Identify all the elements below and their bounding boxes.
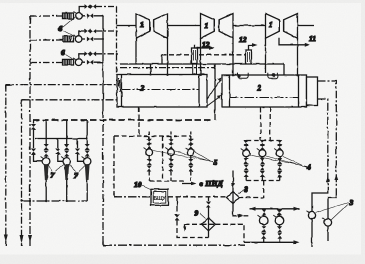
feed pump 3 branch (86, 120, 88, 144)
heat exchanger diamond 9 (202, 218, 216, 231)
wire unit2 top line (96, 30, 117, 32)
wire pump2 tail (66, 180, 68, 201)
wire bottom line y208.8 (250, 208, 300, 210)
turbine T2 (201, 14, 234, 39)
ROU-12 device b (246, 50, 252, 64)
wire T3 right leg (297, 38, 299, 75)
wire 12a arrow line (195, 45, 212, 48)
wire drum feed y99.8 (22, 99, 118, 101)
wire T2 left leg (200, 38, 202, 74)
wire bypass header x116.5 (116, 7, 118, 76)
arrow 11 (304, 43, 310, 47)
diagonal transfer arrow upper (207, 80, 220, 100)
wire inlet ROU unit3 (30, 62, 62, 64)
wire unit2 riser (79, 31, 85, 36)
dashed control enclosure (114, 136, 191, 196)
pump 7-3 (84, 158, 91, 165)
pump condensate b (279, 208, 281, 211)
label 10 leader (142, 186, 151, 190)
wire unit1 riser (79, 7, 85, 13)
wire turbine inlet (117, 25, 137, 27)
heavy dashed header y120 (33, 119, 213, 121)
valve unit2 top b (90, 29, 96, 34)
feed pump 2 branch (66, 120, 68, 144)
left drum fitting pair from ROU-12a (193, 64, 197, 75)
label 9 leader (200, 214, 206, 219)
wire unit1 out (82, 15, 103, 17)
wire bypass stub (161, 55, 163, 64)
valve unit1 top a (85, 4, 91, 9)
label 6 upper (63, 17, 75, 37)
turbine T1 (136, 14, 168, 39)
feed pump 1 side branch (34, 120, 43, 161)
wire steam line after T3 (298, 25, 315, 27)
valve unit3 top a (85, 51, 91, 56)
wire unit1 top line (96, 6, 117, 8)
turbine T3 (266, 14, 298, 39)
wire bypass dashed y54.8 (162, 54, 246, 56)
valve unit3 top b (90, 51, 96, 56)
wire bottom collect y242.3 (244, 241, 296, 243)
arrow up inner riser (326, 177, 330, 183)
wire diamond8 vertical (232, 170, 234, 192)
wire jog to pump3a (312, 190, 328, 212)
group5 riser stubs (149, 132, 191, 137)
wire drum feed y84.6 (6, 84, 117, 86)
arrow 12a (209, 46, 215, 50)
arrow 12b (252, 43, 258, 47)
wire pump3a down (311, 219, 313, 247)
wire vPND arrow (182, 183, 193, 185)
wire pump3b down (327, 226, 329, 241)
wire feed vertical left 3 (29, 16, 31, 246)
wire unit2 out (82, 38, 103, 40)
pump 7-1 cone (44, 164, 49, 180)
label 3 leaders (316, 203, 349, 221)
wire group5 collect (149, 180, 184, 182)
feed pump 2 side branch (58, 139, 63, 162)
wire control drop x177 (176, 197, 178, 212)
valve unit2 out (87, 37, 93, 42)
wire collector vertical x103 (102, 16, 104, 110)
boiler drum right (2) (222, 75, 307, 107)
wire pump1 tail (45, 180, 47, 201)
heat exchanger diamond 8 (227, 192, 240, 204)
pump condensate a (263, 208, 265, 211)
arrow into diamond8 (231, 183, 235, 189)
wire extraction 11 (279, 38, 306, 45)
pump 7-3 cone (85, 164, 90, 180)
group4 risers from drum (261, 107, 271, 141)
arrow right on y208.8 (294, 207, 300, 211)
enclosure internal dashed vertical (162, 136, 164, 181)
group5 pump 1 (148, 136, 150, 139)
wire diamond8 bottom (233, 204, 237, 216)
wire group4 discharge (240, 181, 264, 198)
wire right riser inner (318, 99, 328, 190)
wire jog to pump3b (328, 190, 336, 219)
pump 3b (324, 219, 331, 226)
arrow down 3 (28, 235, 32, 243)
wire main header y63.5 (120, 63, 284, 65)
arrow down 2 (20, 235, 24, 243)
valve unit2 top a (85, 29, 91, 34)
wire to BSchU (114, 196, 151, 198)
group4 pump 3 (279, 140, 281, 142)
label 8 leader (239, 190, 245, 194)
wire discharge header y201 (22, 200, 88, 202)
fitting circle left drum (193, 73, 197, 77)
feed pump 3 side branch (78, 139, 84, 162)
wire steam line T2-T3 (233, 25, 266, 27)
wire solid header y138.5 (35, 138, 88, 140)
group5 pump 2 (170, 136, 172, 139)
wire diamond9 right dashed (215, 224, 244, 242)
arrow left on y208.8 (250, 207, 256, 211)
corner joints (6, 16, 118, 245)
wire T1 left leg (135, 38, 137, 64)
arrow right y242.3 (294, 240, 300, 244)
group4 pump 1 (245, 140, 247, 142)
wire bottom long dash-dot (103, 244, 245, 246)
wire after arrow (244, 215, 249, 217)
feed pump 1 branch (45, 120, 47, 144)
wire aux header y66.8 (120, 67, 215, 69)
wire BSchU to diamond8 (168, 196, 227, 198)
valve unit3 out (87, 60, 93, 65)
boiler drum left (2) (117, 75, 207, 108)
diagonal transfer arrow lower (207, 97, 220, 107)
valve unit1 out (87, 13, 93, 18)
pump 7-1 (43, 158, 50, 165)
wire unit3 out (82, 61, 103, 63)
ROU unit 2 (63, 35, 82, 43)
wire inlet ROU unit2 (30, 39, 62, 41)
wire feed vertical left 2 (21, 100, 23, 246)
arrow down 1 (4, 235, 8, 243)
arrow down left of diamond9 (184, 224, 186, 227)
wire pump3 tail (86, 180, 88, 201)
BSchU control box (151, 189, 168, 205)
ROU unit 3 (63, 58, 82, 66)
arrow up outer riser (334, 175, 338, 181)
group5 pump 3 (190, 136, 192, 139)
drum right extension box (307, 77, 318, 106)
wire feed vertical left 1 (5, 85, 7, 246)
wire header drop into right drum (284, 64, 286, 88)
wire unit3 top line (96, 53, 117, 55)
wire inlet ROU unit1 (30, 15, 62, 17)
pump 7-2 (63, 158, 70, 165)
group4 bottom dashed header (246, 180, 280, 182)
wire downcomer into left drum (150, 64, 152, 75)
wire T2 right leg (232, 38, 234, 75)
group4 dashed header top (246, 140, 280, 142)
wire T3 left leg (265, 38, 267, 73)
wire inter-drum vertical (214, 64, 216, 120)
wire diamond9 left dashed (185, 223, 216, 225)
wire drum drain x139 (138, 107, 140, 136)
U fitting a right drum (238, 73, 249, 79)
pump 7-2 cone (64, 164, 69, 180)
ROU-12 device a (192, 48, 198, 64)
U fitting b right drum (268, 73, 278, 79)
label 7 leaders (48, 165, 86, 172)
wire diamond9 vertical (208, 197, 210, 201)
wire unit3 riser (79, 54, 85, 59)
label 5 leaders (153, 151, 213, 163)
wire steam line T1-T2 (168, 25, 201, 27)
arrow right small (238, 214, 244, 218)
label 6 lower (66, 55, 75, 61)
valve unit1 top b (90, 4, 96, 9)
label 4 leaders (250, 155, 307, 168)
wire T1 right leg (167, 38, 169, 74)
wire right riser outer (318, 81, 337, 190)
group4 pump 2 (261, 140, 263, 142)
wire 12b arrow line (249, 45, 255, 50)
wire diamond9 below (208, 231, 210, 238)
pump 3a (308, 212, 315, 219)
ROU unit 1 (reducing unit) (63, 12, 83, 20)
